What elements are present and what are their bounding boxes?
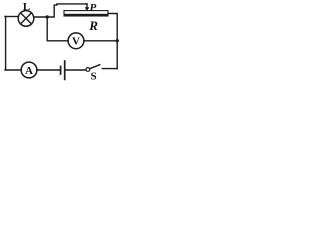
wire top-left horizontal (5, 16, 18, 18)
wire voltmeter right arm (84, 40, 118, 42)
svg-text:L: L (23, 1, 30, 13)
battery cell (61, 61, 65, 79)
svg-text:V: V (72, 36, 80, 48)
wire rheostat right to right vertical (108, 14, 117, 69)
rheostat R body (64, 11, 108, 16)
wire ammeter right to battery (37, 69, 60, 71)
ammeter A (21, 62, 37, 78)
switch S (86, 65, 100, 72)
wire switch right to corner (102, 68, 117, 70)
wire left vertical (5, 17, 7, 71)
svg-text:P: P (90, 2, 97, 14)
svg-text:A: A (25, 65, 33, 77)
voltmeter V (68, 33, 84, 49)
wire lamp right to riser and top run (34, 4, 87, 17)
wire bottom-left horizontal (5, 69, 21, 71)
wiper arrow P onto rheostat (85, 4, 90, 11)
node junction voltmeter right (116, 39, 119, 42)
node junction lamp/voltmeter (46, 15, 49, 18)
wire battery to switch (66, 69, 87, 71)
wire voltmeter branch left arm (47, 17, 68, 41)
svg-text:S: S (90, 71, 96, 83)
lamp L (18, 11, 34, 27)
svg-text:R: R (88, 18, 98, 33)
